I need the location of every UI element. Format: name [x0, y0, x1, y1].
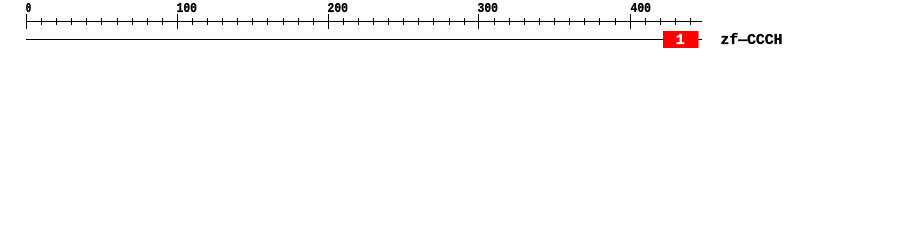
- svg-text:200: 200: [328, 2, 349, 17]
- ruler line: [26, 21, 702, 22]
- svg-text:100: 100: [177, 2, 198, 17]
- protein domain ruler diagram: [0, 0, 900, 58]
- ruler ticks: [26, 14, 691, 29]
- domain box zf-CCCH: [663, 31, 699, 48]
- svg-text:400: 400: [631, 2, 652, 17]
- svg-text:zf—CCCH: zf—CCCH: [721, 32, 783, 49]
- svg-text:1: 1: [676, 32, 685, 49]
- svg-text:300: 300: [478, 2, 499, 17]
- background: [0, 0, 900, 58]
- sequence line: [26, 39, 702, 40]
